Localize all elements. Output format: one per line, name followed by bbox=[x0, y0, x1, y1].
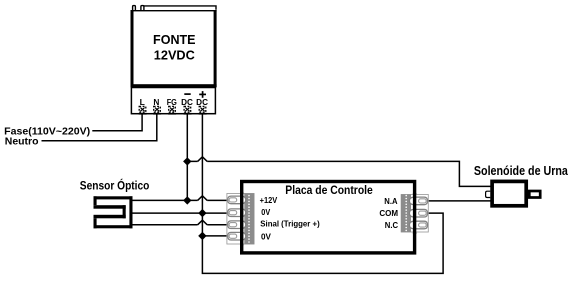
svg-text:COM: COM bbox=[379, 209, 398, 218]
terminal screw square DC- bbox=[184, 106, 191, 112]
svg-text:Neutro: Neutro bbox=[5, 137, 39, 148]
terminal screw square DC+ bbox=[199, 106, 206, 112]
power supply U1 terminal strip bbox=[131, 88, 215, 114]
solenoid plunger bbox=[529, 191, 540, 198]
power supply U1 lid line bbox=[144, 6, 216, 10]
right lug N.A bbox=[409, 197, 427, 205]
left terminal block of control board bbox=[227, 194, 254, 245]
terminal screw square L bbox=[139, 106, 146, 112]
wire solenoid feed from DC- bbox=[187, 161, 491, 186]
terminal screw square N bbox=[154, 106, 161, 112]
right block clamp teeth bbox=[405, 196, 407, 231]
wire sensor to Sinal row bbox=[130, 224, 232, 226]
svg-text:0V: 0V bbox=[261, 233, 271, 242]
svg-text:L: L bbox=[140, 98, 145, 107]
right lug N.C bbox=[409, 221, 427, 229]
junction dot DC- / solenoid feed bbox=[183, 157, 191, 165]
left lug 0V bbox=[228, 209, 246, 217]
svg-text:DC: DC bbox=[181, 98, 193, 107]
wire DC+ drop to bottom return bbox=[202, 114, 443, 273]
control board box (Placa de Controle) bbox=[242, 182, 415, 253]
svg-text:Placa de Controle: Placa de Controle bbox=[285, 183, 373, 197]
right terminal block of control board bbox=[401, 195, 428, 233]
right lug COM bbox=[409, 209, 427, 217]
svg-text:Sinal (Trigger +): Sinal (Trigger +) bbox=[260, 219, 320, 228]
power supply U1 mounting tab left bbox=[133, 6, 136, 10]
svg-text:N: N bbox=[153, 98, 159, 107]
svg-text:+12V: +12V bbox=[260, 196, 278, 205]
svg-text:FONTE: FONTE bbox=[153, 32, 196, 47]
crossover hop on +12V row over DC+ bbox=[198, 196, 208, 201]
left lug 0V row 4 bbox=[228, 232, 246, 240]
crossover hop on Sinal row over DC+ bbox=[198, 220, 208, 225]
optical sensor fork body bbox=[94, 196, 133, 228]
crossover hop on solenoid feed over DC+ bbox=[198, 157, 208, 162]
left lug Sinal bbox=[228, 221, 246, 229]
power supply U1 mounting tab right bbox=[141, 6, 144, 10]
junction dot DC- / +12V row bbox=[183, 196, 191, 204]
junction dot DC+ / 0V row 4 bbox=[198, 232, 206, 240]
control board right border over block bbox=[413, 193, 416, 234]
svg-text:FG: FG bbox=[167, 98, 177, 107]
minus sign over DC- bbox=[184, 93, 190, 95]
wire sensor to 0V row bbox=[130, 212, 232, 214]
left block clamp teeth bbox=[248, 196, 250, 242]
wire DC- drop bbox=[186, 114, 188, 200]
junction dot DC+ / 0V row bbox=[198, 209, 206, 217]
svg-text:Solenóide de Urna: Solenóide de Urna bbox=[474, 163, 569, 178]
svg-text:N.C: N.C bbox=[385, 221, 398, 230]
wire L phase drop bbox=[92, 114, 142, 131]
svg-text:N.A: N.A bbox=[384, 197, 397, 206]
wire N.A to solenoid bbox=[428, 200, 491, 202]
svg-text:12VDC: 12VDC bbox=[154, 47, 196, 62]
svg-text:DC: DC bbox=[196, 98, 208, 107]
wire N neutral drop bbox=[42, 114, 157, 141]
control board left border over block bbox=[240, 192, 243, 246]
left lug +12V bbox=[228, 196, 246, 204]
svg-text:Sensor Óptico: Sensor Óptico bbox=[80, 177, 150, 192]
plus sign over DC+ bbox=[199, 91, 206, 98]
solenoid terminal lug bbox=[486, 191, 491, 197]
svg-text:0V: 0V bbox=[261, 208, 270, 217]
wire sensor to +12V row bbox=[130, 199, 232, 201]
terminal screw square FG bbox=[169, 106, 176, 112]
power supply U1 bottom bar bbox=[131, 84, 217, 87]
power supply U1 body (FONTE 12VDC) bbox=[131, 10, 217, 87]
terminal feet under squares bbox=[139, 113, 207, 115]
solenoid body bbox=[492, 181, 526, 205]
wire DC+ to 0V row 4 bbox=[202, 235, 232, 237]
